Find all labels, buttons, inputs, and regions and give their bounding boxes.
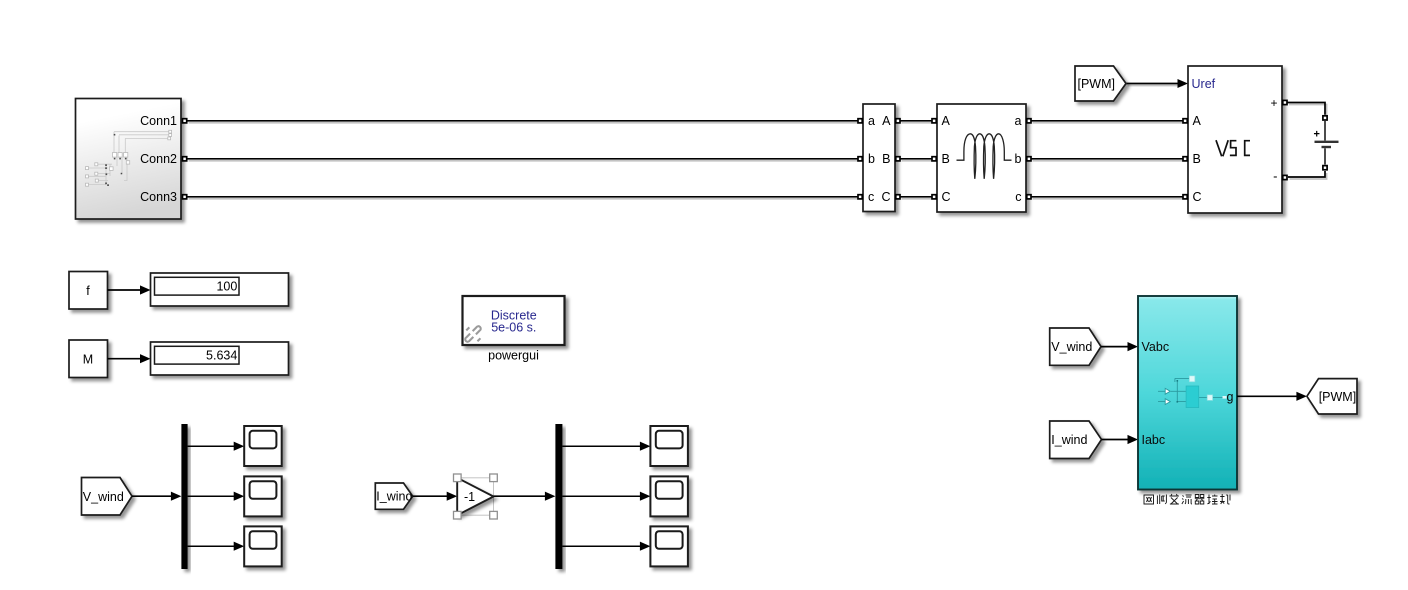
svg-text:a: a	[868, 114, 875, 128]
port squares right a b c	[1027, 119, 1031, 123]
svg-text:b: b	[868, 152, 875, 166]
svg-text:[PWM]: [PWM]	[1319, 390, 1357, 404]
wire V_wind to demux1	[132, 492, 181, 501]
grid-side converter control subsystem (teal)	[1138, 296, 1237, 490]
svg-text:+: +	[1314, 129, 1320, 141]
port square Conn3	[183, 195, 187, 199]
svg-text:powergui: powergui	[488, 349, 539, 363]
demux2 output wires	[562, 446, 646, 546]
constant block M	[69, 340, 108, 378]
gain block -1	[457, 478, 493, 515]
svg-text:100: 100	[216, 279, 237, 293]
broken link icon	[461, 322, 486, 347]
svg-text:c: c	[868, 190, 874, 204]
port squares left a b c	[858, 119, 862, 123]
scope 2b	[650, 476, 688, 516]
arrowhead PWM wire into Uref	[1178, 79, 1189, 88]
inductor coil icon	[957, 134, 1012, 179]
scope 2a	[650, 426, 688, 466]
svg-text:I_wind: I_wind	[376, 490, 412, 504]
svg-text:C: C	[1193, 190, 1202, 204]
svg-text:B: B	[882, 152, 890, 166]
wire f to display	[108, 285, 151, 294]
demux1 output wires	[188, 446, 240, 546]
svg-text:5e-06 s.: 5e-06 s.	[491, 321, 536, 335]
svg-text:M: M	[83, 353, 93, 367]
svg-text:a: a	[1015, 114, 1022, 128]
port squares left A B C	[932, 119, 936, 123]
display block 100	[151, 273, 289, 306]
svg-text:A: A	[942, 114, 951, 128]
svg-text:+: +	[1270, 96, 1277, 110]
svg-text:A: A	[882, 114, 891, 128]
demux2 bar	[555, 424, 562, 569]
wire V_wind to Vabc	[1101, 342, 1138, 351]
port square Conn1	[183, 119, 187, 123]
battery leads	[1324, 121, 1326, 165]
svg-text:V_wind: V_wind	[83, 490, 124, 504]
gain selection handles	[454, 474, 498, 519]
svg-text:c: c	[1015, 190, 1021, 204]
gain selection outline	[457, 478, 493, 515]
three-phase inductor block L	[932, 104, 1031, 212]
scope 2c	[650, 526, 688, 566]
subsystem thumbnail sketch	[88, 132, 170, 185]
svg-text:Conn2: Conn2	[140, 152, 177, 166]
svg-text:[PWM]: [PWM]	[1078, 77, 1116, 91]
svg-text:I_wind: I_wind	[1051, 433, 1087, 447]
VSC digital-style glyphs	[1216, 140, 1250, 156]
svg-text:g: g	[1227, 390, 1234, 404]
scope 1c	[244, 526, 282, 566]
powergui block	[461, 296, 565, 363]
svg-text:-: -	[1273, 169, 1277, 184]
label: grid-side converter control (CJK)	[1144, 494, 1230, 504]
svg-text:Conn3: Conn3	[140, 190, 177, 204]
wire M to display	[108, 354, 151, 363]
port squares left A B C	[1183, 119, 1187, 123]
wire I_wind to Iabc	[1102, 435, 1139, 444]
From tag PWM (top)	[1075, 66, 1126, 101]
port squares right A B C	[896, 119, 900, 123]
From tag I_wind (right)	[1050, 421, 1102, 459]
svg-text:V_wind: V_wind	[1051, 340, 1092, 354]
wire g to Goto PWM	[1237, 392, 1307, 401]
constant block f	[69, 272, 108, 310]
scope 1a	[244, 426, 282, 466]
teal inner thumbnail	[1158, 378, 1223, 402]
svg-text:B: B	[942, 152, 950, 166]
subsystem block (machine side)	[76, 99, 187, 220]
port square Conn2	[183, 157, 187, 161]
svg-text:Uref: Uref	[1192, 77, 1216, 91]
svg-text:b: b	[1015, 152, 1022, 166]
display block 5.634	[151, 342, 289, 375]
svg-text:A: A	[1193, 114, 1202, 128]
From tag V_wind (right)	[1050, 328, 1101, 365]
battery long plate	[1315, 141, 1339, 143]
VSC converter block	[1183, 66, 1287, 213]
three-phase measurement block	[858, 104, 900, 212]
svg-text:Vabc: Vabc	[1142, 340, 1170, 354]
battery short plate	[1322, 146, 1332, 148]
From tag V_wind (left)	[82, 478, 133, 516]
scope 1b	[244, 476, 282, 516]
demux1 bar	[181, 424, 187, 569]
DC voltage source	[1314, 116, 1339, 170]
svg-text:C: C	[942, 190, 951, 204]
svg-text:5.634: 5.634	[206, 348, 237, 362]
From tag I_wind (left)	[375, 483, 412, 509]
svg-text:-1: -1	[464, 490, 475, 504]
svg-text:Conn1: Conn1	[140, 114, 177, 128]
wires top row	[187, 84, 1325, 197]
wire I_wind to gain	[413, 492, 458, 501]
port squares right plus minus	[1283, 100, 1287, 104]
svg-text:B: B	[1193, 152, 1201, 166]
battery port squares	[1323, 116, 1327, 120]
wire gain to demux2	[494, 492, 556, 501]
Goto tag PWM (right)	[1307, 379, 1357, 414]
wire shadows top row	[189, 86, 1327, 199]
svg-text:C: C	[881, 190, 890, 204]
svg-text:f: f	[86, 284, 90, 298]
svg-text:Iabc: Iabc	[1142, 433, 1166, 447]
